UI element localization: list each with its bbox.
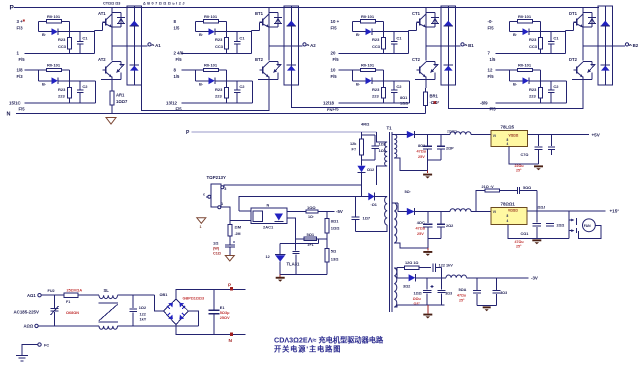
ground TL431 <box>276 277 285 279</box>
wire P rail <box>176 289 246 299</box>
svg-text:F/3: F/3 <box>17 26 24 31</box>
svg-text:P: P <box>10 5 15 12</box>
fan connector <box>568 211 570 239</box>
svg-text:FC: FC <box>44 344 49 348</box>
svg-text:1: 1 <box>17 51 20 56</box>
wire <box>383 21 385 37</box>
capacitor 222 <box>440 212 442 224</box>
svg-text:R0·101: R0·101 <box>518 63 532 68</box>
svg-text:3Ω3: 3Ω3 <box>500 291 507 295</box>
wire caps rail 2 <box>428 237 441 239</box>
svg-text:ΩΩu: ΩΩu <box>413 297 421 301</box>
X-capacitor 0.68u <box>54 295 56 308</box>
wire +5V output <box>527 134 589 136</box>
svg-text:122 1kV: 122 1kV <box>439 264 454 268</box>
inductor L3 <box>446 275 467 278</box>
svg-text:F/5: F/5 <box>488 26 495 31</box>
svg-text:1ΩΩ7: 1ΩΩ7 <box>116 99 128 104</box>
wire emitter <box>582 77 584 89</box>
svg-text:ΩM: ΩM <box>235 224 242 229</box>
svg-text:8Ω1: 8Ω1 <box>400 96 407 100</box>
svg-text:25°: 25° <box>459 298 465 302</box>
capacitor E 470u/25V <box>427 135 429 146</box>
capacitor 122 1kV across line <box>132 295 134 308</box>
svg-text:223: 223 <box>529 94 536 99</box>
svg-text:VI: VI <box>493 210 496 214</box>
wire AC1 into bridge <box>154 295 163 311</box>
wire P line <box>192 131 377 133</box>
svg-text:E1: E1 <box>220 306 225 310</box>
wire <box>182 69 204 71</box>
svg-text:B2: B2 <box>633 43 639 48</box>
svg-text:ΔΒ07ΩΩΩьΙ2J: ΔΒ07ΩΩΩьΙ2J <box>143 2 186 6</box>
rectifier diode 5D1 <box>394 134 407 136</box>
svg-text:VΩΩΩ: VΩΩΩ <box>509 133 519 137</box>
svg-text:N: N <box>7 112 11 118</box>
svg-text:5Ω·: 5Ω· <box>405 190 411 194</box>
svg-text:1Ω2: 1Ω2 <box>139 306 146 310</box>
wire fan loop <box>578 225 601 238</box>
svg-text:20: 20 <box>331 51 336 56</box>
svg-text:(W): (W) <box>213 247 220 251</box>
svg-text:C1: C1 <box>396 36 402 41</box>
svg-text:AΩΩ: AΩΩ <box>24 323 34 328</box>
capacitor C2 <box>548 89 555 91</box>
capacitor aux 107 <box>355 197 357 217</box>
wire sense row <box>280 243 319 245</box>
wire to bridge <box>118 294 155 296</box>
wire <box>565 32 567 54</box>
svg-text:8: 8 <box>174 19 177 24</box>
svg-text:F/5: F/5 <box>490 107 497 112</box>
svg-text:1ΩΩ: 1ΩΩ <box>331 225 340 230</box>
svg-text:TLA31: TLA31 <box>287 262 300 267</box>
diode DD2 <box>509 80 522 82</box>
freewheel diode AD1 <box>130 21 139 26</box>
svg-text:TΩP213Y: TΩP213Y <box>207 175 226 180</box>
svg-text:R23: R23 <box>529 87 537 92</box>
inductor L2 <box>450 209 471 212</box>
driver block A <box>9 6 161 112</box>
svg-text:F/5: F/5 <box>176 57 183 62</box>
wire collector bus <box>425 8 427 61</box>
svg-text:Ω68ΩN: Ω68ΩN <box>66 311 79 315</box>
svg-text:2Ω2: 2Ω2 <box>446 224 453 228</box>
svg-text:223: 223 <box>58 94 65 99</box>
capacitor C01 <box>536 211 538 223</box>
antiparallel diode BT1 <box>269 12 278 14</box>
svg-text:12k: 12k <box>350 142 357 146</box>
diode DC2 <box>352 80 365 82</box>
diode box (bridge leg) <box>441 6 455 85</box>
T1 primary winding <box>377 132 388 142</box>
wire rail <box>181 102 252 104</box>
svg-text:VI: VI <box>493 134 496 138</box>
wire rail <box>495 102 566 104</box>
freewheel diode CD1 <box>444 21 453 26</box>
svg-text:3Ω3: 3Ω3 <box>445 292 452 296</box>
svg-text:15/1C: 15/1C <box>9 100 22 105</box>
wire opto out to +5 sense <box>287 218 296 244</box>
svg-text:1ΩΩ: 1ΩΩ <box>414 292 422 296</box>
wire <box>25 69 47 71</box>
wire +15V output <box>527 210 606 212</box>
svg-text:-0·: -0· <box>488 19 493 24</box>
svg-text:C1: C1 <box>553 36 559 41</box>
svg-text:12: 12 <box>488 68 493 73</box>
svg-text:-3V: -3V <box>531 276 538 281</box>
svg-text:R0·101: R0·101 <box>361 63 375 68</box>
resistor RA4 223 <box>68 88 72 99</box>
antiparallel diode AT1 <box>112 12 121 14</box>
bridge diode 2 <box>179 303 184 308</box>
wire opto lower pin <box>230 219 251 221</box>
svg-text:R0·101: R0·101 <box>518 14 532 19</box>
svg-text:1Ω·: 1Ω· <box>308 215 314 219</box>
svg-text:A2: A2 <box>310 43 316 48</box>
wire <box>540 21 542 37</box>
wire <box>383 70 385 88</box>
snubber capacitor 122 1kV <box>432 264 434 272</box>
svg-text:AΩ1: AΩ1 <box>27 293 36 298</box>
svg-text:CC3: CC3 <box>529 44 538 49</box>
svg-text:N: N <box>267 203 270 207</box>
resistor RB4 223 <box>225 88 229 99</box>
wire rail <box>338 102 409 104</box>
svg-text:5Ω3μ: 5Ω3μ <box>220 311 230 315</box>
wire feedback net <box>239 197 362 212</box>
svg-text:47Ωu: 47Ωu <box>417 150 427 154</box>
svg-text:CΩ1: CΩ1 <box>521 232 529 236</box>
capacitor C1 <box>234 41 241 43</box>
svg-text:12Ω 1Ω: 12Ω 1Ω <box>405 261 418 265</box>
svg-text:C2: C2 <box>239 84 245 89</box>
svg-text:CT2: CT2 <box>412 57 421 62</box>
wire <box>496 69 518 71</box>
capacitor C1 <box>548 41 555 43</box>
svg-text:F/5: F/5 <box>488 74 495 79</box>
svg-text:CC3: CC3 <box>372 44 381 49</box>
svg-text:3Ω2: 3Ω2 <box>403 284 410 288</box>
svg-text:R0·101: R0·101 <box>204 14 218 19</box>
wire source line <box>221 207 230 224</box>
driver block C <box>323 6 474 112</box>
rectifier diode S2 <box>394 202 398 204</box>
svg-text:78ΩΩ1: 78ΩΩ1 <box>501 201 516 206</box>
diode DB1 <box>195 31 208 33</box>
svg-text:F/3: F/3 <box>17 74 24 79</box>
wire collector bus <box>582 8 584 61</box>
wire left pin stub <box>206 196 208 198</box>
svg-text:C2: C2 <box>396 84 402 89</box>
svg-text:5ΩΩ: 5ΩΩ <box>523 186 531 190</box>
wire link box B bottom to C <box>291 85 408 108</box>
wire -3V output <box>467 277 529 279</box>
IC U4 78M15 <box>491 208 527 225</box>
wire collector bus <box>268 8 270 61</box>
svg-text:2ΩP: 2ΩP <box>446 147 454 151</box>
svg-text:F/5: F/5 <box>331 26 338 31</box>
bridge diode 3 <box>168 315 173 320</box>
svg-text:ΩB1: ΩB1 <box>160 293 168 297</box>
svg-text:P: P <box>186 130 190 136</box>
svg-text:DT2: DT2 <box>569 57 578 62</box>
phase output node A1 <box>112 45 148 47</box>
svg-text:C2: C2 <box>553 84 559 89</box>
svg-text:25°: 25° <box>516 168 522 172</box>
svg-text:C2: C2 <box>82 84 88 89</box>
svg-text:B·: B· <box>42 81 46 86</box>
wire ref rail <box>280 274 327 276</box>
T1 secondary winding S1 <box>394 135 397 158</box>
svg-text:BT2: BT2 <box>255 57 264 62</box>
svg-text:78LΩ5: 78LΩ5 <box>501 124 515 129</box>
svg-text:B·: B· <box>356 32 360 37</box>
svg-text:C1Ω: C1Ω <box>213 251 221 255</box>
svg-text:12: 12 <box>266 255 270 259</box>
svg-text:10 +: 10 + <box>331 19 340 24</box>
svg-text:13/12: 13/12 <box>166 100 178 105</box>
capacitor out b <box>496 278 498 290</box>
wire link box A bottom to B bus <box>141 85 269 111</box>
wire aux return <box>356 225 388 232</box>
wire drain line <box>224 185 362 187</box>
svg-text:1/5: 1/5 <box>490 57 496 62</box>
wire emitter <box>111 77 113 89</box>
svg-text:B·: B· <box>199 81 203 86</box>
diode snubber 1N2 <box>357 166 365 172</box>
ground below AR1 <box>106 118 116 125</box>
svg-text:223: 223 <box>215 94 222 99</box>
capacitor 240 <box>546 223 554 225</box>
capacitor E1 500u/250V <box>213 289 215 310</box>
svg-text:5ΩA: 5ΩA <box>459 288 467 292</box>
svg-text:4ΩC: 4ΩC <box>417 221 425 225</box>
T1 secondary winding S3 <box>394 268 397 307</box>
wire <box>251 32 253 54</box>
earth ground <box>22 345 38 356</box>
wire caps rail <box>428 159 441 161</box>
svg-text:B·: B· <box>199 32 203 37</box>
svg-text:R0·101: R0·101 <box>47 63 61 68</box>
wire <box>69 21 71 37</box>
svg-text:21Ω ·V: 21Ω ·V <box>482 185 495 189</box>
diode box (bridge leg) <box>598 6 612 85</box>
svg-text:·: · <box>438 100 439 105</box>
svg-text:4: 4 <box>507 142 509 146</box>
svg-text:R23: R23 <box>372 87 380 92</box>
wire <box>566 81 568 103</box>
svg-text:R23: R23 <box>372 37 380 42</box>
svg-text:FAN: FAN <box>584 224 591 228</box>
svg-text:VΩΩΩ: VΩΩΩ <box>508 208 518 212</box>
resistor RB2 223 <box>225 37 229 48</box>
svg-text:.2M: .2M <box>235 232 241 236</box>
phase output node B1 <box>426 45 461 47</box>
wire emitter <box>268 77 270 89</box>
svg-text:F/5: F/5 <box>19 107 26 112</box>
red junction mark <box>23 20 25 22</box>
capacitor E2 470u/25V <box>427 212 429 224</box>
capacitor out a <box>476 278 478 290</box>
optocoupler U2 PC817 <box>251 208 287 223</box>
wire <box>540 70 542 88</box>
svg-text:3: 3 <box>224 187 226 191</box>
svg-text:223: 223 <box>372 94 379 99</box>
svg-text:R23: R23 <box>529 37 537 42</box>
svg-text:25ΩVΩA: 25ΩVΩA <box>67 289 83 293</box>
diode DD1 <box>509 31 522 33</box>
capacitor C2 <box>234 89 241 91</box>
resistor R81 upper divider <box>326 211 328 218</box>
svg-text:1Ω7: 1Ω7 <box>363 216 371 221</box>
wire secondary return + ground <box>394 158 427 170</box>
wire collector bus <box>111 8 113 61</box>
svg-text:F/5: F/5 <box>19 57 26 62</box>
svg-text:R23: R23 <box>58 37 66 42</box>
wire S2 return + ground <box>394 243 428 248</box>
capacitor small <box>551 135 553 147</box>
svg-text:·Ω1: ·Ω1 <box>371 203 377 207</box>
freewheel diode AD2 <box>130 64 139 66</box>
wire AC2 line <box>38 325 99 327</box>
capacitor C2 <box>391 89 398 91</box>
svg-text:C1: C1 <box>82 36 88 41</box>
svg-text:25V: 25V <box>418 155 425 159</box>
antiparallel diode BT2 <box>269 61 278 63</box>
capacitor C2 <box>77 89 84 91</box>
capacitor C70 <box>538 135 540 147</box>
feedback loop capacitor 500 <box>516 187 518 194</box>
wire <box>408 32 410 54</box>
diode aux 4D1 <box>368 193 374 201</box>
svg-text:CTΩΩ Ω3: CTΩΩ Ω3 <box>103 2 120 6</box>
capacitor C1 <box>77 41 84 43</box>
antiparallel diode DT1 <box>583 12 592 14</box>
wire <box>94 32 96 54</box>
wire <box>226 21 228 37</box>
svg-text:8: 8 <box>507 214 509 218</box>
freewheel diode DD1 <box>601 21 610 26</box>
svg-text:F?: F? <box>352 148 357 152</box>
svg-text:13Ω: 13Ω <box>331 256 339 261</box>
svg-text:R0·101: R0·101 <box>204 63 218 68</box>
wire N rail <box>176 325 246 335</box>
resistor RA2 223 <box>68 37 72 48</box>
svg-text:CC3: CC3 <box>58 44 67 49</box>
resistor R100 opto feed <box>287 210 306 212</box>
svg-text:4: 4 <box>507 219 509 223</box>
svg-text:CT1: CT1 <box>412 11 421 16</box>
driver block D <box>480 6 639 112</box>
svg-text:1ΩΩ: 1ΩΩ <box>400 102 408 106</box>
svg-text:8: 8 <box>174 68 177 73</box>
svg-text:2 4/0: 2 4/0 <box>174 51 184 56</box>
phase output node B2 <box>583 45 625 47</box>
svg-text:ΩΩJ: ΩΩJ <box>538 206 546 210</box>
svg-text:N: N <box>229 338 233 344</box>
svg-text:8Ω1: 8Ω1 <box>331 218 339 223</box>
svg-text:F1: F1 <box>66 300 70 304</box>
svg-text:3+1: 3+1 <box>308 243 314 247</box>
capacitor C10 10u <box>229 236 231 244</box>
ground under C70 <box>534 165 543 167</box>
svg-text:5Ω1: 5Ω1 <box>307 232 315 237</box>
svg-text:F/5: F/5 <box>331 74 338 79</box>
wire rail <box>24 52 94 54</box>
svg-text:25ΩV: 25ΩV <box>220 316 230 320</box>
capacitor C1 <box>391 41 398 43</box>
svg-text:AR1: AR1 <box>116 93 125 98</box>
wire rail <box>495 52 565 54</box>
svg-text:7: 7 <box>488 51 491 56</box>
wire <box>409 81 411 103</box>
diode box (bridge leg) <box>127 6 141 85</box>
svg-text:8: 8 <box>507 138 509 142</box>
diode box (bridge leg) <box>284 6 298 85</box>
wire <box>252 81 254 103</box>
wire <box>69 70 71 88</box>
svg-text:R23: R23 <box>58 87 66 92</box>
wire S3 return <box>394 305 397 307</box>
bridge diode 4 <box>179 315 184 320</box>
svg-text:CDΛ3Ω2ΕΛ≈ 充电机型驱动器电路: CDΛ3Ω2ΕΛ≈ 充电机型驱动器电路 <box>274 336 384 345</box>
wire <box>339 69 361 71</box>
diode DA2 <box>38 80 51 82</box>
wire link box C bottom to D bus <box>448 85 583 109</box>
wire AC2 into bridge <box>188 311 198 326</box>
freewheel diode BD1 <box>287 21 296 26</box>
svg-text:3 +: 3 + <box>17 19 24 24</box>
resistor snubber 12k <box>361 132 363 139</box>
capacitor snubber 103 <box>362 134 376 136</box>
svg-text:2AC1: 2AC1 <box>263 225 274 230</box>
svg-text:47Ωu: 47Ωu <box>416 227 426 231</box>
svg-text:FU2: FU2 <box>48 289 55 293</box>
svg-text:F/5: F/5 <box>176 107 183 112</box>
svg-text:1kY: 1kY <box>140 318 147 322</box>
svg-text:+5V: +5V <box>592 132 601 137</box>
wire + ground S3 out <box>477 305 497 307</box>
resistor R1M <box>228 224 232 236</box>
svg-text:-8/9: -8/9 <box>480 100 488 105</box>
wire emitter <box>425 77 427 89</box>
resistor BR1 (C leg) <box>425 88 427 92</box>
ground below C10 <box>225 256 234 262</box>
fan M1 <box>583 219 596 232</box>
svg-text:B·: B· <box>513 32 517 37</box>
svg-text:R23: R23 <box>215 87 223 92</box>
svg-text:47Ωu: 47Ωu <box>515 240 524 244</box>
freewheel diode BD2 <box>287 64 296 66</box>
freewheel diode DD2 <box>601 64 610 66</box>
svg-text:DT1: DT1 <box>569 11 578 16</box>
antiparallel diode AT2 <box>112 61 121 63</box>
resistor RC2 223 <box>382 37 386 48</box>
resistor RC4 223 <box>382 88 386 99</box>
svg-text:BR1: BR1 <box>430 94 439 99</box>
rectifier diode 3D2 <box>397 277 409 279</box>
resistor AR1 100 <box>111 88 113 91</box>
svg-text:GBPΩ1ΩΩ3: GBPΩ1ΩΩ3 <box>183 296 205 300</box>
wire <box>508 21 510 31</box>
svg-text:A1: A1 <box>155 43 161 48</box>
svg-text:B·: B· <box>356 81 360 86</box>
resistor RD4 223 <box>539 88 543 99</box>
svg-text:1/5: 1/5 <box>174 26 180 31</box>
svg-text:F/5: F/5 <box>333 57 340 62</box>
svg-text:AT2: AT2 <box>98 57 106 62</box>
